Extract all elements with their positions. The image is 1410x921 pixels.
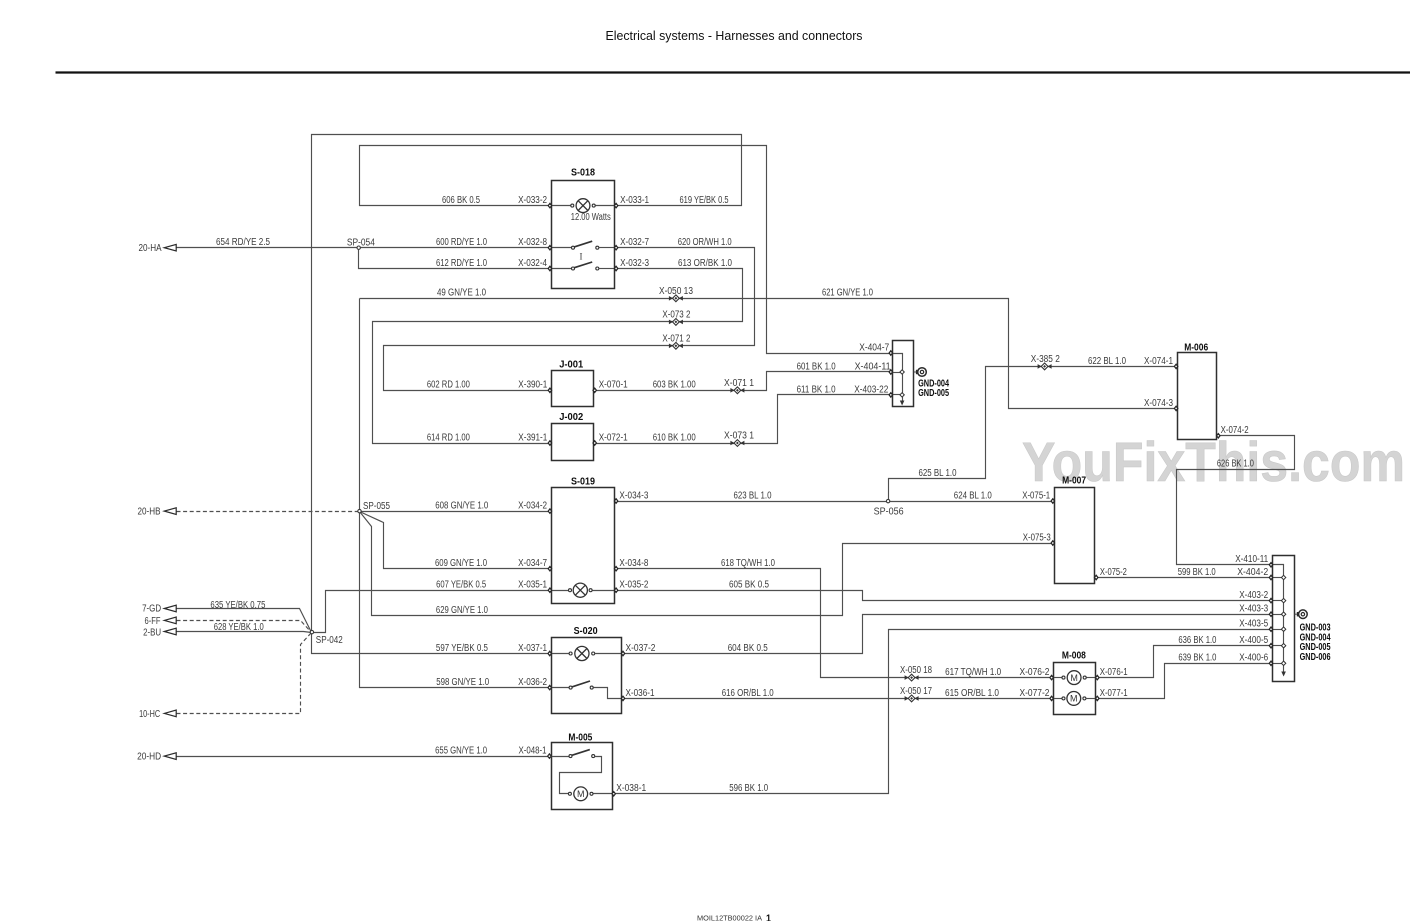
pin X-035-2 — [614, 587, 619, 593]
svg-text:M-006: M-006 — [1184, 343, 1208, 354]
svg-text:I: I — [580, 253, 583, 263]
svg-text:609 GN/YE 1.0: 609 GN/YE 1.0 — [435, 558, 487, 569]
svg-text:612 RD/YE 1.0: 612 RD/YE 1.0 — [436, 258, 487, 269]
pin X-403-2 — [1269, 597, 1274, 603]
node GND block X-403-3 tap — [1281, 612, 1285, 616]
svg-text:622 BL 1.0: 622 BL 1.0 — [1088, 356, 1126, 367]
lamp inside S-019 — [573, 583, 587, 597]
pin X-077-2 — [1049, 695, 1054, 701]
wire 20-HB dashed to SP-055 — [177, 511, 360, 513]
svg-text:S-019: S-019 — [571, 476, 595, 487]
contact M-008 motor2 left — [1062, 697, 1065, 700]
svg-text:597 YE/BK 0.5: 597 YE/BK 0.5 — [436, 643, 488, 654]
wire 605 BK 0.5 (X-035-2 to X-403-2) — [617, 591, 1272, 601]
svg-text:655 GN/YE 1.0: 655 GN/YE 1.0 — [435, 746, 487, 757]
pin X-074-1 — [1174, 363, 1179, 369]
svg-text:X-035-2: X-035-2 — [619, 580, 648, 591]
header rule — [56, 71, 1410, 73]
junction J-001 — [552, 371, 594, 407]
pin X-032-7 — [614, 245, 619, 251]
svg-text:X-070-1: X-070-1 — [599, 380, 628, 391]
contact M-005 switch right — [592, 755, 595, 758]
svg-text:X-403-5: X-403-5 — [1239, 619, 1268, 630]
wire 639 BK 1.0 (X-077-1 to X-400-6) — [1098, 664, 1272, 699]
svg-text:X-410-11: X-410-11 — [1235, 554, 1268, 565]
junction SP-054 — [357, 246, 360, 249]
svg-text:618 TQ/WH 1.0: 618 TQ/WH 1.0 — [721, 558, 775, 569]
node GND block X-400-5 tap — [1281, 644, 1285, 648]
wire GND block stub X-403-3 — [1273, 614, 1284, 616]
wire 628 YE/BK 1.0 (2-BU to SP-042) — [177, 632, 312, 633]
node GND block X-404-11 tap — [900, 370, 904, 374]
wire 609 GN/YE 1.0 (SP-055 to X-034-7) — [360, 512, 550, 569]
svg-text:X-074-2: X-074-2 — [1221, 425, 1249, 436]
contact S-018 switch1 left — [572, 246, 575, 249]
wire 626 BK 1.0 (X-074-2 loop to X-410-11) — [1177, 436, 1295, 565]
svg-text:20-HA: 20-HA — [139, 243, 162, 254]
switch-lamp unit S-020 — [552, 638, 622, 714]
wire M-005 internal link switch to motor — [560, 757, 602, 794]
svg-text:X-050 17: X-050 17 — [900, 686, 932, 697]
pin X-390-1 — [547, 387, 552, 393]
wire GND block stub X-404-2 — [1273, 577, 1284, 579]
wire 618 TQ/WH 1.0 / 617 TQ/WH 1.0 (X-034-8 via X-050 18 to X-076-2) — [617, 569, 1052, 678]
svg-text:611 BK 1.0: 611 BK 1.0 — [797, 384, 836, 395]
svg-text:X-077-1: X-077-1 — [1100, 688, 1128, 699]
svg-text:601 BK 1.0: 601 BK 1.0 — [797, 361, 836, 372]
connector X-073 pin 2 — [669, 319, 683, 326]
svg-text:7-GD: 7-GD — [142, 604, 161, 615]
wire S-020 switch to X-036-1 internal — [594, 688, 622, 699]
svg-text:X-050 13: X-050 13 — [659, 286, 693, 297]
svg-text:639 BK 1.0: 639 BK 1.0 — [1178, 653, 1216, 664]
pin X-404-11 — [888, 369, 893, 375]
motor unit M-006 — [1178, 353, 1217, 440]
svg-text:X-032-4: X-032-4 — [518, 258, 547, 269]
wire GND block stub X-400-6 — [1273, 663, 1284, 665]
svg-text:X-034-8: X-034-8 — [619, 558, 648, 569]
wire S-019 lamp row internal left — [552, 590, 569, 592]
junction J-002 — [552, 424, 594, 461]
wire GND block stub X-403-5 — [1273, 629, 1284, 631]
wire 596 BK 1.0 (X-038-1 to X-403-5) — [614, 630, 1272, 794]
svg-text:X-403-3: X-403-3 — [1239, 604, 1268, 615]
svg-text:603 BK 1.00: 603 BK 1.00 — [653, 380, 696, 391]
svg-text:635 YE/BK 0.75: 635 YE/BK 0.75 — [210, 600, 265, 611]
wire 635 YE/BK 0.75 (7-GD to SP-042) — [177, 609, 312, 633]
wire 607 YE/BK 0.5 (SP-042 to X-035-1) — [312, 591, 550, 633]
wire GND-003..006 block internal bus — [1273, 565, 1284, 672]
node GND block X-404-2 tap — [1281, 575, 1285, 579]
motor unit M-005 — [552, 743, 613, 810]
wire 603 BK 1.00 / 601 BK 1.0 (X-070-1 via X-071 1 to X-404-11) — [595, 372, 891, 391]
wire 49 GN/YE 1.0 / 621 GN/YE 1.0 (via X-050 13 to X-074-3) — [360, 299, 1177, 409]
svg-text:X-071 1: X-071 1 — [724, 378, 754, 389]
ground block GND-003/004/005/006 — [1273, 556, 1295, 682]
motor inside M-005 — [574, 787, 588, 801]
pin X-035-1 — [547, 587, 552, 593]
svg-text:X-400-5: X-400-5 — [1239, 635, 1268, 646]
contact S-020 lamp left — [569, 652, 572, 655]
pin X-391-1 — [547, 440, 552, 446]
pin X-032-3 — [614, 265, 619, 271]
switch blade S-020 — [572, 681, 590, 687]
pin X-404-7 — [888, 350, 893, 356]
off-page arrow 7-GD — [164, 605, 176, 612]
svg-text:X-403-22: X-403-22 — [854, 384, 888, 395]
contact S-018 lamp left — [571, 204, 574, 207]
svg-text:X-033-1: X-033-1 — [620, 195, 649, 206]
svg-text:X-037-1: X-037-1 — [518, 643, 547, 654]
svg-text:X-400-6: X-400-6 — [1239, 653, 1268, 664]
pin X-034-8 — [614, 566, 619, 572]
connector X-050 pin 17 — [905, 695, 919, 702]
svg-text:619 YE/BK 0.5: 619 YE/BK 0.5 — [680, 195, 729, 206]
wire S-018 switch row2 internal right — [599, 268, 615, 270]
svg-text:X-403-2: X-403-2 — [1239, 590, 1268, 601]
node GND block X-403-22 tap — [900, 393, 904, 397]
motor unit M-008 — [1054, 663, 1096, 715]
svg-text:X-404-2: X-404-2 — [1237, 567, 1268, 578]
svg-text:X-034-3: X-034-3 — [619, 490, 648, 501]
svg-text:X-034-7: X-034-7 — [518, 558, 547, 569]
svg-text:625 BL 1.0: 625 BL 1.0 — [919, 468, 957, 479]
svg-text:636 BK 1.0: 636 BK 1.0 — [1178, 635, 1216, 646]
svg-text:M-008: M-008 — [1062, 651, 1086, 662]
svg-text:599 BK 1.0: 599 BK 1.0 — [1178, 567, 1216, 578]
svg-text:X-033-2: X-033-2 — [518, 195, 547, 206]
svg-text:X-390-1: X-390-1 — [518, 380, 547, 391]
junction SP-055 — [358, 509, 361, 512]
svg-text:10-HC: 10-HC — [139, 709, 160, 720]
pin X-075-1 — [1050, 498, 1055, 504]
contact S-019 lamp left — [569, 589, 572, 592]
lamp inside S-020 — [575, 646, 589, 660]
pin X-036-1 — [621, 695, 626, 701]
contact S-020 switch left — [569, 686, 572, 689]
svg-text:X-050 18: X-050 18 — [900, 665, 932, 676]
pin X-400-6 — [1269, 660, 1274, 666]
svg-text:624 BL 1.0: 624 BL 1.0 — [954, 490, 992, 501]
pin X-070-1 — [592, 387, 597, 393]
off-page arrow 20-HD — [164, 753, 176, 760]
switch blade S-018 row1 — [574, 241, 592, 247]
motor unit M-007 — [1055, 488, 1095, 584]
contact S-018 switch2 left — [572, 267, 575, 270]
wire 10-HC dashed to SP-042 — [177, 633, 312, 714]
wire 608 GN/YE 1.0 (SP-055 to X-034-2) — [360, 511, 550, 513]
wire 625 BL 1.0 / 622 BL 1.0 (SP-056 via X-385 2 to X-074-1) — [889, 367, 1177, 502]
svg-text:606 BK 0.5: 606 BK 0.5 — [442, 195, 480, 206]
svg-text:J-001: J-001 — [559, 359, 583, 370]
contact S-019 lamp right — [589, 589, 592, 592]
svg-text:MOIL12TB00022 IA: MOIL12TB00022 IA — [697, 914, 762, 921]
junction SP-042 — [310, 630, 313, 633]
pin X-400-5 — [1269, 643, 1274, 649]
svg-text:X-404-7: X-404-7 — [859, 342, 889, 353]
pin X-403-3 — [1269, 611, 1274, 617]
pin X-038-1 — [611, 791, 616, 797]
contact S-020 switch right — [590, 686, 593, 689]
pin X-074-3 — [1174, 405, 1179, 411]
svg-text:X-385 2: X-385 2 — [1031, 354, 1060, 365]
wire 597 YE/BK 0.5 (SP-042 to X-037-1) — [312, 633, 550, 654]
svg-text:X-073 1: X-073 1 — [724, 431, 754, 442]
pin X-404-2 — [1269, 574, 1274, 580]
wire GND block stub X-403-2 — [1273, 600, 1284, 602]
svg-text:X-038-1: X-038-1 — [616, 783, 646, 794]
off-page arrow 20-HB — [164, 508, 176, 515]
wire 599 BK 1.0 (X-075-2 to X-404-2) — [1097, 577, 1272, 579]
contact S-018 switch1 right — [596, 246, 599, 249]
pin X-074-2 — [1216, 433, 1221, 439]
svg-text:613 OR/BK 1.0: 613 OR/BK 1.0 — [678, 258, 732, 269]
contact S-020 lamp right — [592, 652, 595, 655]
svg-text:598 GN/YE 1.0: 598 GN/YE 1.0 — [436, 677, 489, 688]
svg-text:GND-005: GND-005 — [918, 388, 949, 399]
wire S-018 switch row2 internal left — [552, 268, 572, 270]
contact M-005 motor right — [590, 792, 593, 795]
svg-text:629 GN/YE 1.0: 629 GN/YE 1.0 — [436, 605, 488, 616]
wire 636 BK 1.0 (X-076-1 to X-400-5) — [1098, 646, 1272, 678]
svg-text:2-BU: 2-BU — [143, 628, 161, 639]
off-page arrow 20-HA — [164, 244, 176, 251]
svg-text:20-HB: 20-HB — [138, 506, 161, 517]
node GND block X-403-2 tap — [1281, 598, 1285, 602]
wire GND-004/005 block internal bus — [893, 354, 903, 401]
svg-text:49 GN/YE 1.0: 49 GN/YE 1.0 — [437, 288, 486, 299]
svg-text:SP-042: SP-042 — [316, 635, 343, 646]
pin X-033-1 — [614, 202, 619, 208]
svg-text:X-075-3: X-075-3 — [1023, 532, 1051, 543]
svg-text:X-032-3: X-032-3 — [620, 258, 649, 269]
node GND block X-400-6 tap — [1281, 661, 1285, 665]
wire S-018 switch row1 internal left — [552, 247, 572, 249]
ground block GND-004/GND-005 — [893, 341, 914, 407]
pin X-075-3 — [1050, 540, 1055, 546]
svg-text:614 RD 1.00: 614 RD 1.00 — [427, 432, 470, 443]
pin X-034-2 — [547, 508, 552, 514]
connector X-050 pin 18 — [905, 674, 919, 681]
contact M-008 motor2 right — [1083, 697, 1086, 700]
svg-text:608 GN/YE 1.0: 608 GN/YE 1.0 — [435, 501, 488, 512]
wire 619 YE/BK 0.5 loop (X-033-1 top loop to SP-042) — [312, 135, 742, 633]
svg-text:X-036-2: X-036-2 — [518, 677, 547, 688]
wire S-018 lamp row internal right — [596, 205, 615, 207]
wire 612 RD/YE 1.0 (SP-054 drop to X-032-4) — [359, 248, 550, 269]
connector X-071 pin 2 — [669, 342, 683, 349]
svg-text:604 BK 0.5: 604 BK 0.5 — [728, 643, 768, 654]
svg-text:600 RD/YE 1.0: 600 RD/YE 1.0 — [436, 237, 487, 248]
motor 2 inside M-008 — [1067, 692, 1081, 706]
switch blade S-018 row2 — [574, 262, 592, 268]
switch-lamp unit S-019 — [552, 488, 615, 604]
lamp inside S-018 (12.00 Watts) — [576, 199, 590, 213]
connector X-073 pin 1 — [730, 440, 744, 447]
contact M-005 motor left — [568, 792, 571, 795]
svg-text:654 RD/YE 2.5: 654 RD/YE 2.5 — [216, 237, 270, 248]
off-page arrow 2-BU — [164, 628, 176, 635]
wire 604 BK 0.5 (X-037-2 to X-403-3) — [624, 615, 1272, 654]
svg-text:621 GN/YE 1.0: 621 GN/YE 1.0 — [822, 288, 873, 299]
svg-text:X-074-1: X-074-1 — [1144, 356, 1173, 367]
wire GND block stub X-403-22 — [893, 394, 903, 396]
wire S-020 switch row internal left — [552, 687, 570, 689]
svg-text:SP-055: SP-055 — [363, 501, 390, 512]
svg-text:596 BK 1.0: 596 BK 1.0 — [729, 783, 768, 794]
off-page arrow 6-FF — [164, 617, 176, 624]
arrow GND-003..006 block continuation — [1281, 672, 1286, 677]
wire M-008 motor1 row internal left — [1054, 677, 1063, 679]
pin X-048-1 — [547, 753, 552, 759]
node GND block X-403-5 tap — [1281, 627, 1285, 631]
wire M-008 motor2 row internal left — [1054, 698, 1063, 700]
connector X-071 pin 1 — [730, 387, 744, 394]
svg-text:X-076-2: X-076-2 — [1020, 667, 1050, 678]
svg-text:620 OR/WH 1.0: 620 OR/WH 1.0 — [678, 237, 732, 248]
switch-lamp unit S-018 — [552, 181, 615, 289]
motor 1 inside M-008 — [1067, 671, 1081, 685]
contact M-008 motor1 left — [1062, 676, 1065, 679]
pin X-403-5 — [1269, 626, 1274, 632]
svg-text:M: M — [1070, 694, 1078, 704]
svg-text:X-037-2: X-037-2 — [626, 643, 656, 654]
pin X-403-22 — [888, 392, 893, 398]
svg-text:X-077-2: X-077-2 — [1020, 688, 1050, 699]
wire 616 OR/BL 1.0 / 615 OR/BL 1.0 (X-036-1 via X-050 17 to X-077-2) — [624, 698, 1052, 700]
svg-text:610 BK 1.00: 610 BK 1.00 — [653, 432, 696, 443]
contact M-005 switch left — [569, 755, 572, 758]
contact S-018 lamp right — [592, 204, 595, 207]
pin X-036-2 — [547, 684, 552, 690]
pin X-075-2 — [1094, 574, 1099, 580]
svg-text:SP-054: SP-054 — [347, 237, 375, 248]
svg-text:M: M — [577, 789, 585, 799]
wire 655 GN/YE 1.0 (20-HD to X-048-1) — [177, 756, 550, 758]
svg-text:GND-006: GND-006 — [1300, 652, 1331, 663]
wire 620 OR/WH 1.0 / 602 RD 1.00 (X-032-7 via X-071 2 to X-390-1) — [384, 248, 755, 391]
ground GND-003..GND-006 lug — [1295, 610, 1308, 619]
svg-text:M-007: M-007 — [1062, 476, 1086, 487]
wire S-020 lamp row internal left — [552, 653, 570, 655]
svg-text:6-FF: 6-FF — [145, 616, 161, 627]
wire M-008 motor2 row internal right — [1086, 698, 1096, 700]
wire 623 BL 1.0 / 624 BL 1.0 (X-034-3 via SP-056 to X-075-1) — [617, 501, 1053, 503]
pin X-076-2 — [1049, 674, 1054, 680]
wire 613 OR/BK 1.0 / 614 RD 1.00 (X-032-3 via X-073 2 to X-391-1) — [373, 269, 743, 444]
contact M-008 motor1 right — [1083, 676, 1086, 679]
wire SP-055 spine / 598 GN/YE 1.0 (49 GN/YE corner down through SP-055 to X-036-2) — [360, 299, 550, 688]
svg-text:X-034-2: X-034-2 — [518, 501, 547, 512]
junction SP-056 — [886, 499, 889, 502]
pin X-034-7 — [547, 566, 552, 572]
svg-text:605 BK 0.5: 605 BK 0.5 — [729, 580, 769, 591]
pin X-037-2 — [621, 650, 626, 656]
svg-text:X-036-1: X-036-1 — [626, 688, 655, 699]
pin X-076-1 — [1095, 674, 1100, 680]
wire M-008 motor1 row internal right — [1087, 677, 1096, 679]
svg-text:X-074-3: X-074-3 — [1144, 398, 1173, 409]
pin X-034-3 — [614, 498, 619, 504]
wire S-019 lamp row internal right — [593, 590, 615, 592]
connector X-050 pin 13 — [669, 295, 683, 302]
ground GND-004/GND-005 lug — [914, 368, 927, 377]
svg-text:X-048-1: X-048-1 — [519, 746, 547, 757]
svg-text:X-035-1: X-035-1 — [518, 580, 547, 591]
svg-text:M-005: M-005 — [568, 733, 592, 744]
svg-text:628 YE/BK 1.0: 628 YE/BK 1.0 — [214, 622, 264, 633]
svg-text:623 BL 1.0: 623 BL 1.0 — [734, 490, 772, 501]
svg-text:X-073 2: X-073 2 — [662, 310, 690, 321]
pin X-077-1 — [1095, 695, 1100, 701]
svg-text:S-018: S-018 — [571, 168, 595, 179]
wire GND block stub X-400-5 — [1273, 645, 1284, 647]
wire 6-FF dashed to SP-042 — [177, 621, 312, 633]
pin X-032-8 — [547, 245, 552, 251]
wire 606 BK 0.5 (X-033-2 loop to X-404-7) — [360, 146, 891, 354]
svg-text:Electrical systems - Harnesses: Electrical systems - Harnesses and conne… — [606, 28, 863, 43]
contact S-018 switch2 right — [596, 267, 599, 270]
connector X-385 pin 2 — [1038, 363, 1052, 370]
svg-text:607 YE/BK 0.5: 607 YE/BK 0.5 — [436, 580, 486, 591]
svg-text:602 RD 1.00: 602 RD 1.00 — [427, 380, 470, 391]
svg-text:X-075-2: X-075-2 — [1100, 567, 1127, 578]
wire GND block stub X-404-11 — [893, 372, 903, 374]
svg-text:20-HD: 20-HD — [137, 751, 161, 762]
wire S-020 lamp row internal right — [595, 653, 622, 655]
svg-text:X-071 2: X-071 2 — [662, 333, 690, 344]
svg-text:X-391-1: X-391-1 — [518, 432, 547, 443]
pin X-410-11 — [1269, 562, 1274, 568]
svg-text:1: 1 — [766, 914, 771, 921]
svg-text:X-404-11: X-404-11 — [855, 361, 891, 372]
wire 654 RD/YE 2.5 / 600 RD/YE 1.0 (20-HA to SP-054 to X-032-8) — [177, 247, 550, 249]
pin X-033-2 — [547, 202, 552, 208]
svg-text:SP-056: SP-056 — [874, 507, 904, 518]
svg-text:615 OR/BL 1.0: 615 OR/BL 1.0 — [945, 688, 999, 699]
svg-text:12.00 Watts: 12.00 Watts — [571, 212, 611, 223]
wire M-005 motor row internal right — [594, 793, 613, 795]
arrow GND-004/005 block continuation — [900, 401, 905, 406]
off-page arrow 10-HC — [164, 710, 176, 717]
pin X-037-1 — [547, 650, 552, 656]
wire S-018 switch row1 internal right — [599, 247, 615, 249]
svg-text:X-072-1: X-072-1 — [599, 432, 628, 443]
svg-text:X-075-1: X-075-1 — [1022, 490, 1050, 501]
switch blade M-005 — [572, 750, 590, 756]
wire 610 BK 1.00 / 611 BK 1.0 (X-072-1 via X-073 1 to X-403-22) — [595, 395, 891, 444]
svg-text:616 OR/BL 1.0: 616 OR/BL 1.0 — [722, 688, 774, 699]
svg-text:X-032-7: X-032-7 — [620, 237, 649, 248]
pin X-072-1 — [592, 440, 597, 446]
svg-text:X-076-1: X-076-1 — [1100, 667, 1128, 678]
svg-text:J-002: J-002 — [559, 412, 583, 423]
wire S-018 lamp row internal left — [552, 205, 571, 207]
wire 629 GN/YE 1.0 (SP-055 to X-075-3) — [360, 512, 1053, 616]
svg-text:S-020: S-020 — [574, 626, 598, 637]
svg-text:617 TQ/WH 1.0: 617 TQ/WH 1.0 — [945, 667, 1001, 678]
svg-text:626 BK 1.0: 626 BK 1.0 — [1217, 459, 1254, 470]
wire M-005 switch row internal left — [552, 756, 570, 758]
svg-text:M: M — [1070, 673, 1078, 683]
svg-text:X-032-8: X-032-8 — [518, 237, 547, 248]
pin X-032-4 — [547, 265, 552, 271]
